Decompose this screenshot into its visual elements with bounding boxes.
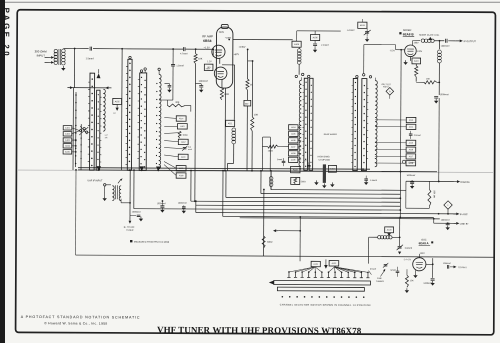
svg-text:TUNING: TUNING — [376, 280, 384, 283]
uhf secondary lead — [120, 199, 122, 203]
coupling box — [328, 165, 336, 172]
svg-text:-1.4 +2V: -1.4 +2V — [403, 258, 412, 261]
svg-text:FINE: FINE — [377, 277, 382, 280]
mixer coil teeth — [299, 80, 301, 166]
IF output arrow — [448, 40, 455, 42]
tube V1 section1 electrodes — [215, 49, 222, 51]
selector rotor bar — [274, 281, 371, 286]
label box A120 — [385, 227, 394, 233]
svg-text:IF OUTPUT: IF OUTPUT — [464, 40, 477, 43]
svg-text:VHF TUNER WITH UHF PROVISIONS: VHF TUNER WITH UHF PROVISIONS WT86X78 — [157, 325, 362, 336]
agc long line — [76, 255, 494, 257]
svg-text:UHF IF INPUT: UHF IF INPUT — [87, 179, 103, 182]
wafer B left rail — [121, 49, 124, 170]
osc cathode ground — [414, 270, 416, 273]
IF AGC line — [447, 213, 449, 215]
wafer B plate 2 — [139, 73, 147, 171]
wafer B plate2 contacts — [141, 77, 142, 78]
wafer C plate 1 — [304, 78, 308, 170]
svg-text:A105: A105 — [294, 43, 300, 46]
junction node — [74, 48, 76, 50]
svg-text:TUNER: TUNER — [126, 229, 134, 232]
label box A104 top — [358, 22, 367, 28]
svg-text:A102: A102 — [115, 100, 121, 103]
plate coil output wire — [434, 40, 444, 42]
bank B label boxes — [176, 116, 186, 121]
svg-text:MEASURED FROM PIN 9 OF 6BS8: MEASURED FROM PIN 9 OF 6BS8 — [134, 241, 170, 244]
osc coil — [378, 236, 381, 239]
capacitor C1 1.5mmf — [89, 47, 91, 51]
svg-text:COUPLING: COUPLING — [319, 159, 331, 162]
wafer A section plate 2 — [96, 90, 100, 170]
500 ohm resistor boxed — [291, 177, 300, 184]
coil L4 down lead — [298, 64, 300, 74]
tube V2 electrodes — [407, 48, 414, 50]
svg-text:HIGH BAND: HIGH BAND — [318, 155, 331, 158]
tube V1 base wires — [219, 58, 221, 63]
left page-edge black bar — [0, 0, 5, 343]
fine tuning cap — [384, 264, 388, 266]
svg-text:5mmf: 5mmf — [390, 269, 396, 272]
osc trimmer 3-9mmf — [398, 246, 402, 248]
box A110 below — [291, 166, 300, 172]
wafer D top terminals — [356, 76, 358, 78]
wafer A rotor cluster — [80, 129, 82, 131]
A104 top lead — [361, 19, 363, 22]
wafer B plate 1 — [127, 59, 132, 170]
svg-text:1000mmf: 1000mmf — [198, 80, 208, 83]
svg-text:A106: A106 — [291, 139, 295, 142]
wafer B bottom arrows — [140, 166, 145, 171]
svg-text:6EA8 A: 6EA8 A — [419, 241, 430, 245]
osc grid leak 10K — [405, 275, 408, 287]
1.5mmf cap right — [364, 178, 368, 180]
wafer D plate1 contacts — [355, 82, 356, 83]
osc vertical from bus — [263, 190, 265, 256]
mixer plate coil — [421, 39, 424, 42]
agc return drop — [73, 49, 75, 88]
wafer B top terminals — [129, 56, 131, 58]
line B+ drop — [433, 219, 435, 223]
svg-text:A112: A112 — [181, 141, 185, 144]
svg-text:1%: 1% — [105, 136, 108, 139]
feedthrough cap C4 — [246, 90, 248, 100]
vert coil small — [269, 177, 273, 181]
tube V1 triode section 2 — [214, 67, 227, 80]
svg-text:STRAP: STRAP — [370, 268, 377, 271]
svg-text:15K 1W: 15K 1W — [433, 190, 436, 197]
resistor R3 1K — [246, 49, 248, 78]
grid coil L4 — [297, 49, 301, 53]
osc grid cap — [396, 270, 400, 272]
uhf secondary — [119, 186, 121, 201]
RF coil teeth — [159, 74, 162, 168]
label box A102 — [113, 98, 122, 104]
wafer A top arrow — [96, 73, 100, 78]
uhf core — [115, 185, 117, 199]
tube V1 section2 electrodes — [217, 71, 224, 73]
svg-text:1.5mmf: 1.5mmf — [176, 64, 184, 67]
svg-text:1.2V: 1.2V — [207, 60, 212, 63]
osc coil teeth — [375, 81, 377, 167]
wafer C top terminals — [295, 75, 297, 77]
svg-text:A109: A109 — [291, 158, 295, 161]
svg-text:133V: 133V — [420, 252, 426, 255]
selector rotor arrow — [324, 265, 328, 269]
svg-text:© Howard W. Sams & Co., Inc. 1: © Howard W. Sams & Co., Inc. 1958 — [44, 321, 107, 325]
wafer D plate2 contacts — [364, 85, 365, 86]
svg-text:+100V: +100V — [225, 36, 232, 39]
svg-text:A104: A104 — [291, 126, 295, 129]
svg-text:500Ω: 500Ω — [301, 180, 306, 183]
svg-text:1.5mmf: 1.5mmf — [408, 161, 415, 164]
selector index dots — [282, 296, 284, 298]
wafer A rail — [72, 88, 74, 170]
high B+ wire — [438, 172, 440, 182]
wafer C box leads — [298, 126, 301, 128]
bank B A109 box — [176, 166, 186, 171]
svg-text:INPUT: INPUT — [37, 53, 46, 57]
svg-text:REAR WAFER: REAR WAFER — [324, 133, 338, 136]
selector contacts — [288, 271, 290, 273]
2.2mmf osc cap — [409, 133, 413, 135]
svg-text:+135V: +135V — [239, 46, 246, 49]
coupling grounds — [315, 180, 317, 182]
wafer C plate1 contacts — [305, 82, 306, 83]
svg-text:1.5mmf: 1.5mmf — [370, 179, 377, 182]
secondary top lead — [63, 47, 74, 49]
osc plate wire — [399, 254, 401, 258]
svg-text:3-9mmf: 3-9mmf — [405, 247, 413, 250]
bus right drops — [399, 216, 401, 218]
svg-text:10K: 10K — [198, 58, 203, 61]
svg-text:1000mmf: 1000mmf — [132, 211, 141, 214]
bank B 500 ohm resistor — [178, 131, 181, 138]
svg-text:20K: 20K — [175, 101, 180, 104]
bank B trimmer 3-9 — [183, 147, 187, 149]
cathode wire — [164, 83, 169, 85]
svg-text:-0.2V: -0.2V — [390, 49, 396, 52]
label box 180mmf — [204, 64, 213, 70]
svg-text:10K: 10K — [410, 279, 414, 282]
svg-text:1000mmf: 1000mmf — [157, 202, 166, 205]
uhf arrow top — [118, 179, 121, 183]
wafer A plate2 contacts — [98, 94, 99, 95]
wire to interstage — [233, 65, 235, 120]
svg-text:1000mmf: 1000mmf — [441, 219, 450, 222]
svg-text:A105: A105 — [291, 132, 295, 135]
tube V1 triode section 1 — [212, 45, 225, 58]
svg-text:2.2mmf: 2.2mmf — [321, 44, 329, 47]
resistor R4 100ohm — [268, 145, 279, 148]
fold line — [17, 170, 494, 172]
svg-text:2.2mmf: 2.2mmf — [414, 134, 421, 137]
svg-text:CHANNEL SELECTOR SWITCH SHOWN: CHANNEL SELECTOR SWITCH SHOWN IN CHANNEL… — [280, 304, 371, 307]
resistor path down — [246, 112, 248, 171]
svg-text:mmf: mmf — [206, 67, 210, 70]
wafer C plate2 contacts — [311, 85, 312, 86]
svg-text:LINE B+: LINE B+ — [460, 223, 470, 226]
transformer core — [58, 49, 60, 65]
B+ to UHF tuner — [129, 216, 131, 221]
footnote measured — [130, 240, 132, 242]
wafer D box stack — [406, 117, 416, 122]
svg-text:A108: A108 — [179, 174, 183, 177]
svg-text:1.5mmf: 1.5mmf — [86, 57, 94, 60]
RF coil contact dots — [156, 83, 157, 84]
osc feed drop — [399, 218, 401, 246]
svg-text:1000mmf: 1000mmf — [441, 45, 450, 48]
svg-text:B+ TO UHF: B+ TO UHF — [124, 226, 136, 229]
coupling strip — [323, 164, 326, 183]
osc bypass 1000mmf — [431, 278, 435, 280]
ground below balun — [62, 66, 64, 68]
mixer plate lead — [411, 41, 413, 46]
svg-text:120V: 120V — [417, 50, 423, 53]
osc tube V3 — [413, 258, 426, 271]
svg-text:A108: A108 — [291, 152, 295, 155]
line B+ arrow — [434, 222, 453, 224]
tube V1 envelope tip — [221, 24, 228, 28]
osc coil wire — [392, 236, 400, 238]
svg-text:A114: A114 — [179, 117, 183, 120]
plate lead to coupling bus — [233, 38, 293, 40]
input terminal arrows — [45, 56, 51, 58]
label box with cap 2.2mmf — [310, 34, 319, 40]
svg-text:.5-3mmf: .5-3mmf — [347, 29, 355, 32]
svg-text:POINT: POINT — [383, 85, 390, 88]
shunt cap 1.5mmf — [172, 48, 174, 50]
svg-text:100mmf: 100mmf — [443, 262, 451, 265]
svg-text:mmf: mmf — [188, 148, 192, 151]
svg-text:6EA8 B: 6EA8 B — [403, 32, 415, 36]
1.5mmf osc cap — [402, 160, 405, 163]
wafer C plate 2 — [309, 78, 313, 170]
wafer D plate 2 — [361, 79, 366, 171]
svg-text:IF AGC: IF AGC — [460, 213, 468, 216]
uhf primary — [112, 186, 114, 201]
wafer bottom rail pair — [78, 168, 370, 170]
svg-text:RF AMP: RF AMP — [202, 34, 213, 38]
resistor 680ohm — [262, 236, 265, 248]
svg-text:1000mmf: 1000mmf — [406, 174, 415, 177]
svg-text:A107: A107 — [291, 145, 295, 148]
20K loop resistor — [159, 99, 173, 101]
bank B A110 box — [178, 154, 188, 159]
wafer C box stack — [289, 125, 298, 130]
svg-text:+87V: +87V — [234, 53, 240, 56]
antenna coil teeth — [103, 89, 105, 131]
page top edge line — [0, 1, 500, 3]
grid lead from bus — [206, 48, 214, 50]
tube V1 envelope — [216, 27, 233, 88]
svg-text:15K: 15K — [426, 77, 430, 80]
wafer A section plate 1 — [90, 73, 95, 170]
terminal strip boxes A101-A105 — [63, 126, 72, 130]
uhf primary ground — [104, 186, 106, 196]
resistor R2 180ohm — [220, 88, 223, 100]
svg-text:140V: 140V — [219, 31, 225, 34]
interstage coil L3 — [232, 128, 236, 132]
uhf transformer terminal — [104, 184, 106, 186]
svg-text:HIGH B+: HIGH B+ — [460, 181, 470, 184]
mixer B wire down — [400, 50, 403, 172]
svg-text:A115: A115 — [409, 141, 413, 144]
IF output capacitor — [445, 39, 447, 43]
osc test point diamond — [386, 87, 394, 95]
osc bus drop — [299, 217, 301, 261]
label box A105 — [292, 41, 301, 47]
B+ arrow to switch — [276, 230, 278, 232]
wafer A plate1 contacts — [92, 78, 94, 80]
wire A106 to bus — [314, 31, 316, 35]
osc tube electrodes — [416, 261, 423, 263]
100mmf to pin — [433, 266, 444, 268]
selector shaft bar — [277, 287, 364, 291]
IF coil secondary — [438, 41, 440, 49]
svg-text:A113: A113 — [409, 119, 413, 122]
wafer A rail2 — [80, 124, 82, 170]
terminal strip leads — [72, 128, 80, 131]
svg-text:5mmf: 5mmf — [277, 158, 283, 161]
trimmer to wafer D — [366, 42, 368, 49]
rail junction dots — [98, 169, 100, 171]
mixer grid lead — [396, 49, 405, 51]
svg-text:680Ω: 680Ω — [267, 241, 273, 244]
wafer B plate1 contacts — [129, 63, 131, 65]
coupling loop box — [262, 137, 264, 171]
selector boxes — [311, 261, 320, 266]
resistor 15K 1W — [428, 189, 431, 206]
svg-text:A106: A106 — [313, 36, 319, 39]
svg-text:4.7mmf: 4.7mmf — [180, 52, 188, 55]
tube V2 envelope — [405, 45, 417, 57]
svg-text:500Ω: 500Ω — [183, 134, 188, 137]
wafer D plate 1 — [353, 79, 358, 171]
agc line with arrows — [67, 87, 69, 89]
svg-text:1000mmf: 1000mmf — [178, 202, 187, 205]
svg-text:A PHOTOFACT STANDARD NOTATI: A PHOTOFACT STANDARD NOTATION SCHEMATIC — [21, 315, 141, 320]
balun secondary coil L2 — [62, 49, 66, 53]
svg-text:A104: A104 — [360, 24, 366, 27]
mixer cathode — [409, 57, 411, 61]
svg-text:A110: A110 — [181, 156, 185, 159]
svg-text:A113: A113 — [180, 125, 184, 128]
wafer D box leads — [375, 119, 406, 121]
svg-text:A117: A117 — [409, 155, 413, 158]
svg-text:.5-3: .5-3 — [303, 159, 306, 162]
svg-text:A114: A114 — [409, 125, 413, 128]
bus drops — [270, 171, 272, 190]
bus lines — [271, 189, 406, 192]
wafer A rail contacts — [75, 94, 77, 96]
label box A111 — [226, 120, 235, 126]
wave trap diamond — [444, 201, 452, 209]
capacitor C2 4.7mmf — [182, 47, 184, 51]
selector fan wires — [289, 267, 315, 272]
resistor 15K horizontal — [424, 81, 437, 84]
balun primary coil L1 — [54, 49, 58, 53]
wafer A bottom arrow — [97, 166, 102, 171]
svg-text:10K: 10K — [254, 113, 259, 116]
svg-text:PAGE 20: PAGE 20 — [2, 8, 11, 59]
antenna bus wire — [75, 48, 89, 50]
svg-text:6BS8: 6BS8 — [203, 39, 211, 43]
capacitor 5mmf — [282, 160, 286, 162]
osc right lead — [426, 263, 433, 265]
svg-text:1000mmf: 1000mmf — [440, 93, 449, 96]
svg-text:MIXER PLATE COIL: MIXER PLATE COIL — [419, 34, 440, 37]
svg-text:A116: A116 — [409, 148, 413, 151]
svg-text:180Ω: 180Ω — [224, 93, 230, 96]
bank B A112 box — [178, 139, 188, 144]
svg-text:TO PIN 5: TO PIN 5 — [458, 266, 467, 269]
bank B box leads — [164, 117, 176, 120]
svg-text:180V: 180V — [413, 41, 419, 44]
coupling trimmer — [307, 164, 311, 166]
high B+ loop — [405, 181, 407, 208]
resistor R1 10K — [195, 49, 197, 53]
mixer cathode resistor — [415, 64, 417, 66]
